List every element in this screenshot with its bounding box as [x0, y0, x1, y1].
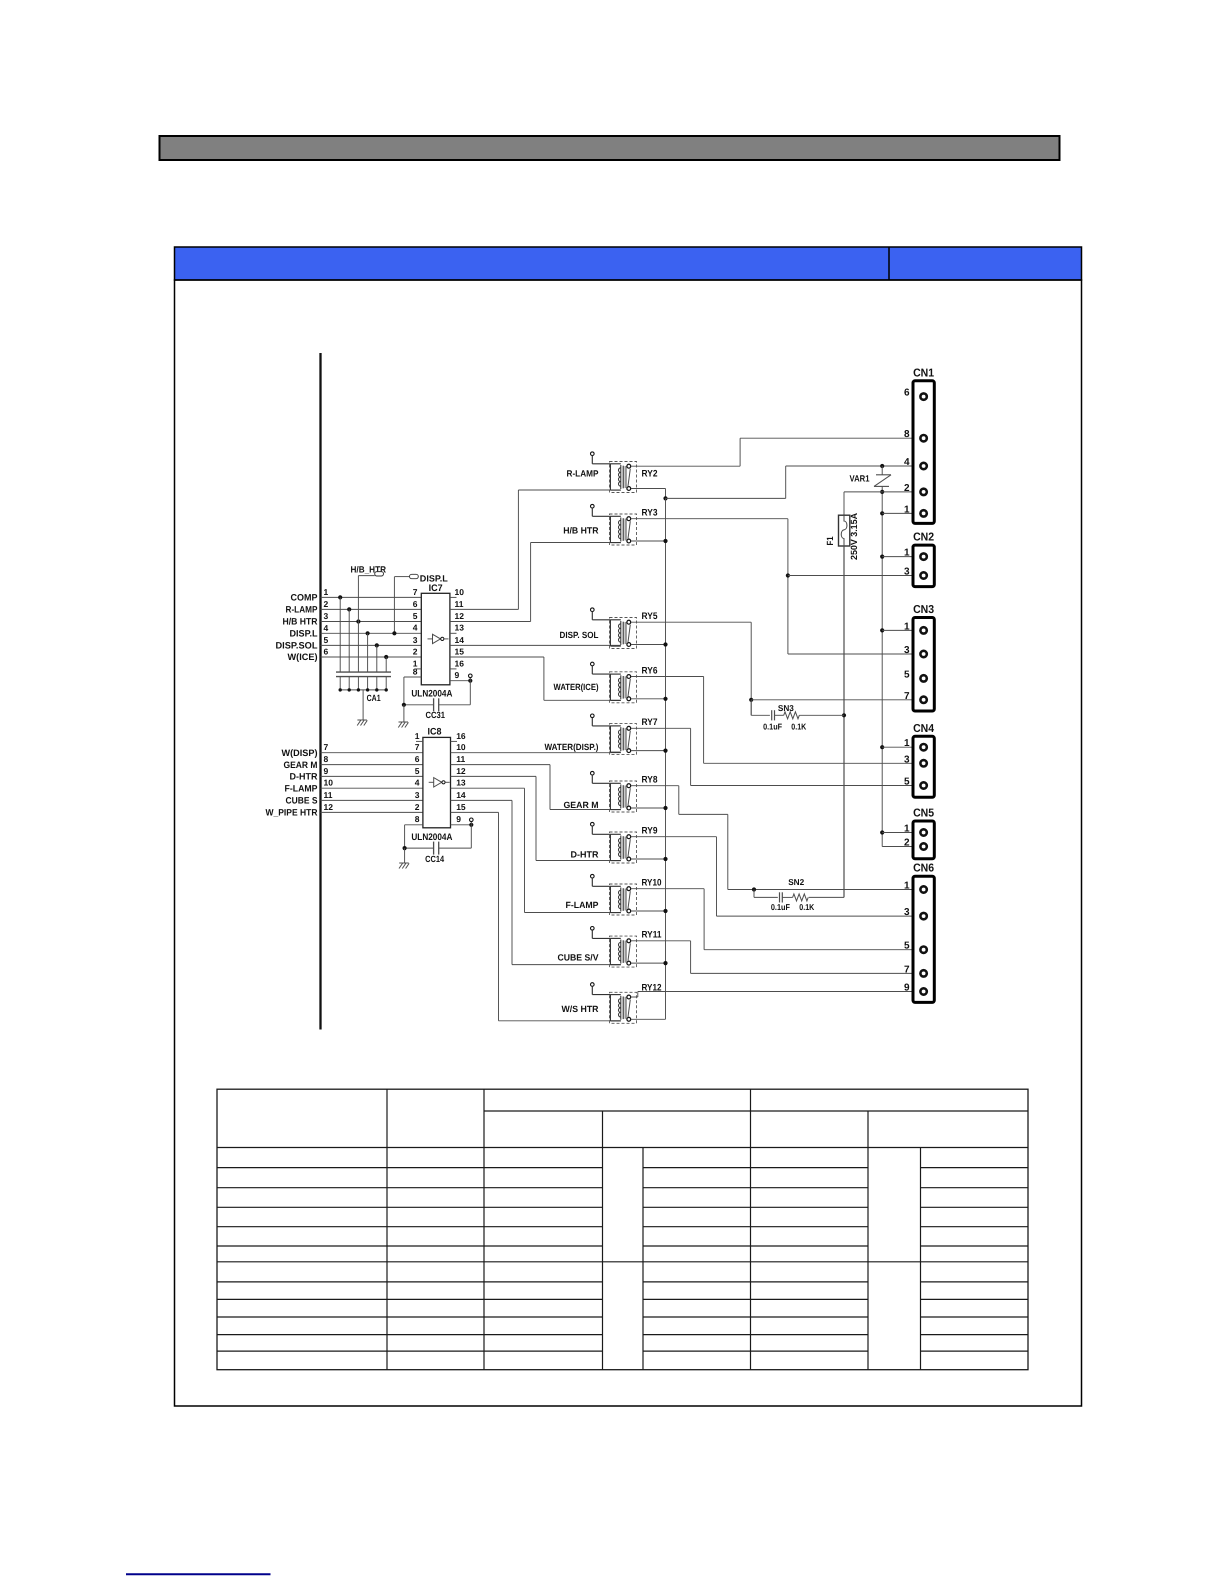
label F1	[825, 537, 835, 546]
wire bus pin 1 to IC7 pin 7	[321, 596, 422, 598]
wire IC8 pin 11 to relay RY8 coil	[451, 765, 621, 810]
svg-text:2: 2	[324, 599, 329, 609]
relay RY12	[591, 983, 637, 1024]
svg-text:W(DISP): W(DISP)	[282, 748, 318, 758]
node label F-LAMP	[285, 783, 318, 793]
svg-text:16: 16	[455, 658, 465, 668]
svg-text:GEAR M: GEAR M	[284, 760, 318, 770]
label RY11	[642, 930, 663, 941]
bus pin number 2	[324, 599, 329, 609]
IC8 pin 16 stub	[451, 740, 458, 742]
svg-text:14: 14	[455, 635, 465, 645]
svg-text:3: 3	[904, 754, 910, 765]
svg-text:W/S HTR: W/S HTR	[562, 1004, 599, 1014]
svg-text:WATER(DISP.): WATER(DISP.)	[545, 742, 599, 752]
op-amp IC8 ULN2004A body	[423, 737, 451, 827]
svg-text:4: 4	[904, 457, 910, 468]
wire IC8 pin 12 to relay RY9 coil	[451, 776, 621, 860]
wire CN1 pin 2 to fuse F1	[844, 492, 913, 515]
svg-text:RY9: RY9	[642, 826, 658, 837]
label RY7	[642, 717, 658, 728]
wire bus pin 9 to IC8 pin 5	[321, 775, 423, 777]
wire bus pin 6 to IC7 pin 2	[321, 656, 422, 658]
op-amp IC7 ULN2004A body	[421, 593, 450, 685]
svg-text:0.1K: 0.1K	[791, 722, 807, 732]
capacitor CC14	[403, 842, 472, 855]
label 0.1K (SN3)	[791, 722, 807, 732]
bus pin number 8	[324, 754, 329, 764]
label RY5	[642, 611, 659, 622]
node label GEAR M	[284, 760, 318, 770]
svg-text:VAR1: VAR1	[850, 474, 870, 484]
wire RY11 contact to CN6 pin 7	[631, 941, 913, 974]
ground (CC14)	[399, 848, 409, 868]
svg-text:5: 5	[413, 611, 418, 621]
bus pin number 5	[324, 635, 329, 645]
svg-text:1: 1	[904, 824, 910, 835]
bus pin number 7	[324, 742, 329, 752]
label D-HTR (relay RY9 load)	[571, 850, 599, 860]
wire RY6 contact to CN4 pin 3	[631, 677, 913, 764]
wire RY7 contact to CN4 pin 5	[631, 728, 913, 785]
label F-LAMP (relay RY10 load)	[566, 900, 599, 910]
svg-text:IC8: IC8	[428, 727, 442, 738]
label RY9	[642, 826, 658, 837]
tag H/B_HTR	[351, 564, 387, 576]
svg-text:RY3: RY3	[642, 508, 658, 519]
bus pin number 3	[324, 611, 329, 621]
node label DISP.SOL	[276, 641, 318, 651]
relay RY9	[591, 822, 637, 863]
svg-text:1: 1	[904, 738, 910, 749]
wire to CN3 pin 1	[882, 629, 913, 631]
capacitor CC31	[402, 698, 471, 711]
snubber SN2	[754, 890, 844, 903]
inverter symbol IC7	[428, 634, 449, 643]
ground (CA1)	[357, 720, 367, 726]
svg-text:RY11: RY11	[642, 930, 663, 941]
svg-text:8: 8	[415, 814, 420, 824]
svg-text:IC7: IC7	[429, 583, 443, 594]
svg-text:10: 10	[324, 778, 334, 788]
svg-text:1: 1	[904, 504, 910, 515]
wire to CN5 pin 2	[882, 846, 912, 848]
svg-text:2: 2	[413, 646, 418, 656]
wire RY12 contact to CN6 pin 9	[631, 992, 913, 998]
svg-text:SN2: SN2	[788, 877, 804, 887]
wire RY5 contact to CN3 pin 7 and SN3	[631, 622, 913, 715]
relay RY5	[591, 608, 637, 649]
svg-text:CN6: CN6	[913, 863, 934, 875]
svg-text:10: 10	[455, 587, 465, 597]
svg-text:250V 3.15A: 250V 3.15A	[849, 513, 859, 560]
IC7 pin 10 stub	[450, 596, 457, 598]
label RY6	[642, 665, 658, 676]
label CN3 and pin numbers	[904, 604, 934, 702]
relay RY11	[591, 927, 637, 968]
IC8 left pin numbers	[415, 731, 420, 824]
svg-text:6: 6	[415, 754, 420, 764]
svg-text:0.1uF: 0.1uF	[771, 902, 790, 912]
inverter symbol IC8	[429, 778, 450, 787]
svg-text:W_PIPE HTR: W_PIPE HTR	[266, 808, 318, 818]
svg-text:7: 7	[904, 964, 910, 975]
bus pin number 10	[324, 778, 334, 788]
svg-text:9: 9	[904, 983, 910, 994]
specification table grid	[217, 1089, 1028, 1370]
svg-text:11: 11	[324, 790, 333, 800]
varistor VAR1	[874, 466, 891, 492]
svg-text:1: 1	[904, 621, 910, 632]
wire IC8 pin 13 to relay RY10 coil	[451, 788, 621, 912]
connector CN4	[913, 736, 934, 797]
svg-text:DISP. SOL: DISP. SOL	[560, 630, 599, 640]
svg-text:COMP: COMP	[291, 593, 318, 603]
svg-text:6: 6	[904, 388, 910, 399]
svg-text:CUBE S/V: CUBE S/V	[558, 953, 599, 963]
svg-text:0.1K: 0.1K	[799, 902, 815, 912]
svg-text:5: 5	[904, 777, 910, 788]
outer document frame	[175, 280, 1082, 1406]
label W/S HTR (relay RY12 load)	[562, 1004, 599, 1014]
svg-text:H/B HTR: H/B HTR	[563, 526, 599, 536]
svg-text:8: 8	[904, 429, 910, 440]
snubber SN3	[751, 700, 844, 721]
IC7 pin 1 stub	[415, 668, 422, 670]
wire RY10 contact to CN6 pin 5	[631, 889, 913, 950]
svg-text:R-LAMP: R-LAMP	[286, 605, 318, 615]
label CN6 and pin numbers	[904, 863, 934, 994]
svg-text:9: 9	[456, 814, 461, 824]
label RY8	[642, 775, 658, 786]
svg-text:3: 3	[324, 611, 329, 621]
label RY12	[642, 982, 662, 993]
wire bus pin 4 to IC7 pin 4	[321, 632, 422, 634]
relay RY8	[591, 771, 637, 812]
bus pin number 1	[324, 587, 329, 597]
wire RY3 contact to CN2 pin 3 and CN3 pin 3	[631, 519, 913, 654]
svg-text:CN1: CN1	[913, 367, 935, 379]
svg-text:3: 3	[904, 567, 910, 578]
svg-text:RY6: RY6	[642, 665, 658, 676]
node label DISP.L	[290, 629, 318, 639]
wire IC7 pin 15 to relay RY6 coil	[450, 657, 621, 700]
svg-text:5: 5	[904, 669, 910, 680]
svg-text:12: 12	[455, 611, 465, 621]
svg-text:2: 2	[415, 802, 420, 812]
label H/B HTR (relay RY3 load)	[563, 526, 599, 536]
wire bus pin 10 to IC8 pin 4	[321, 787, 423, 789]
svg-text:4: 4	[415, 778, 420, 788]
svg-text:13: 13	[456, 778, 466, 788]
svg-text:5: 5	[904, 941, 910, 952]
svg-text:14: 14	[456, 790, 466, 800]
label VAR1	[850, 474, 870, 484]
IC7 pin 13 stub	[450, 632, 457, 634]
label CN5 and pin numbers	[904, 808, 935, 849]
relay RY10	[591, 874, 637, 915]
svg-text:CN2: CN2	[913, 532, 934, 544]
svg-text:4: 4	[324, 623, 329, 633]
IC7 left pin numbers	[413, 587, 418, 677]
label WATER(DISP.) (relay RY7 load)	[545, 742, 599, 752]
wire bus pin 7 to IC8 pin 7	[321, 752, 423, 754]
svg-text:3: 3	[904, 907, 910, 918]
blue section header bar	[175, 247, 1082, 280]
wire IC8 pin 9 terminal	[451, 818, 474, 848]
wire to CN2 pin 1	[882, 556, 913, 558]
wire IC7 pin 9 terminal	[450, 674, 473, 705]
node label D-HTR	[290, 772, 318, 782]
svg-text:16: 16	[456, 731, 466, 741]
fuse F1 250V 3.15A	[839, 515, 850, 546]
svg-text:ULN2004A: ULN2004A	[411, 689, 452, 700]
svg-text:CN3: CN3	[913, 604, 934, 616]
svg-text:CC14: CC14	[425, 854, 444, 864]
svg-text:6: 6	[413, 599, 418, 609]
connector CN1	[913, 381, 934, 524]
relay RY3	[591, 504, 637, 545]
node label CUBE S	[286, 796, 318, 806]
svg-text:6: 6	[324, 647, 329, 657]
label ULN2004A (IC7)	[411, 689, 452, 700]
node label H/B HTR	[283, 617, 318, 627]
label GEAR M (relay RY8 load)	[564, 800, 599, 810]
bus pin number 11	[324, 790, 333, 800]
svg-text:2: 2	[904, 838, 910, 849]
label IC8	[428, 727, 442, 738]
wire to CN1 pin 1	[882, 512, 913, 514]
IC7 pin 16 stub	[450, 668, 457, 670]
junction dots CA1 taps	[338, 595, 388, 659]
wire IC7 pin 11 to relay RY2 coil	[450, 490, 621, 609]
wire RY2 contact to CN1 pin 8	[631, 438, 913, 466]
svg-text:GEAR M: GEAR M	[564, 800, 599, 810]
label WATER(ICE) (relay RY6 load)	[554, 682, 599, 692]
svg-text:RY8: RY8	[642, 775, 658, 786]
label CUBE S/V (relay RY11 load)	[558, 953, 599, 963]
svg-text:7: 7	[413, 587, 418, 597]
bus pin number 12	[324, 802, 334, 812]
bus pin number 6	[324, 647, 329, 657]
svg-text:H/B HTR: H/B HTR	[283, 617, 318, 627]
wire IC7 pin 14 to relay RY5 coil	[450, 644, 621, 646]
wire F1 to snubber rail	[842, 546, 846, 897]
wire bus pin 8 to IC8 pin 6	[321, 764, 423, 766]
svg-text:7: 7	[324, 742, 329, 752]
label RY2	[642, 469, 658, 480]
svg-text:1: 1	[415, 731, 420, 741]
svg-text:12: 12	[324, 802, 334, 812]
label 250V 3.15A	[849, 513, 859, 560]
svg-text:D-HTR: D-HTR	[571, 850, 599, 860]
label DISP. SOL (relay RY5 load)	[560, 630, 599, 640]
wire RY8 contact to CN6 pin 1	[631, 786, 913, 892]
wire H/B_HTR tag to node 3	[357, 576, 359, 622]
svg-text:CN5: CN5	[913, 808, 935, 820]
svg-text:F-LAMP: F-LAMP	[285, 783, 318, 793]
svg-text:W(ICE): W(ICE)	[288, 652, 318, 662]
label 0.1uF (SN2)	[771, 902, 790, 912]
label SN2	[788, 877, 804, 887]
svg-text:0.1uF: 0.1uF	[763, 722, 782, 732]
bus pin number 9	[324, 766, 329, 776]
svg-text:R-LAMP: R-LAMP	[567, 469, 599, 479]
svg-text:2: 2	[904, 483, 910, 494]
label R-LAMP (relay RY2 load)	[567, 469, 599, 479]
wire IC7 pin 8 to CC31	[404, 677, 421, 705]
svg-text:7: 7	[904, 691, 910, 702]
label ULN2004A (IC8)	[411, 832, 452, 843]
svg-text:DISP.L: DISP.L	[420, 573, 449, 583]
relay common rail	[631, 498, 668, 1019]
wire bus pin 12 to IC8 pin 2	[321, 811, 423, 813]
relay RY7	[591, 714, 637, 755]
relay RY2	[591, 452, 637, 493]
wire bus pin 3 to IC7 pin 5	[321, 621, 422, 623]
wire bus pin 2 to IC7 pin 6	[321, 608, 422, 610]
label IC7	[429, 583, 443, 594]
svg-text:F-LAMP: F-LAMP	[566, 900, 599, 910]
label RY10	[642, 878, 662, 889]
svg-text:3: 3	[904, 645, 910, 656]
svg-text:CA1: CA1	[367, 693, 381, 703]
label CA1	[367, 693, 381, 703]
wire RY2 common to CN1 pin 4 (power feed)	[631, 464, 913, 501]
svg-text:4: 4	[413, 623, 418, 633]
node label W(DISP)	[282, 748, 318, 758]
svg-text:CN4: CN4	[913, 723, 935, 735]
label CC31	[426, 710, 446, 720]
label CC14	[425, 854, 444, 864]
svg-text:11: 11	[456, 754, 465, 764]
svg-text:8: 8	[413, 666, 418, 676]
wire IC8 pin 14 to relay RY11 coil	[451, 800, 621, 964]
tag DISP.L	[394, 573, 448, 583]
node label R-LAMP	[286, 605, 318, 615]
svg-text:CUBE S: CUBE S	[286, 796, 318, 806]
wire to CN4 pin 1	[882, 746, 912, 748]
svg-text:12: 12	[456, 766, 466, 776]
svg-text:10: 10	[456, 742, 466, 752]
svg-text:5: 5	[324, 635, 329, 645]
IC8 pin 1 stub	[416, 740, 423, 742]
footer navy rule	[126, 1573, 271, 1575]
svg-text:SN3: SN3	[778, 703, 794, 713]
svg-text:ULN2004A: ULN2004A	[411, 832, 452, 843]
input bus line	[319, 353, 321, 1030]
capacitor array CA1	[336, 597, 391, 720]
label CN1 and pin numbers	[904, 367, 935, 515]
wire IC8 pin 10 to relay RY7 coil	[451, 752, 621, 754]
wire power rail to connectors	[880, 490, 884, 847]
wire DISP.L tag to node 4	[392, 577, 396, 636]
label 0.1uF (SN3)	[763, 722, 782, 732]
page title bar (gray)	[160, 136, 1060, 160]
IC7 right pin numbers	[455, 587, 465, 680]
svg-text:15: 15	[456, 802, 466, 812]
label 0.1K (SN2)	[799, 902, 815, 912]
svg-text:1: 1	[904, 881, 910, 892]
node label W(ICE)	[288, 652, 318, 662]
connector CN2	[913, 545, 934, 587]
wire IC8 pin 15 to relay RY12 coil	[451, 812, 621, 1020]
svg-text:1: 1	[324, 587, 329, 597]
wire IC7 pin 12 to relay RY3 coil	[450, 543, 621, 622]
wire RY9 contact to CN6 pin 3	[631, 837, 913, 916]
svg-text:5: 5	[415, 766, 420, 776]
svg-text:D-HTR: D-HTR	[290, 772, 318, 782]
bus pin number 4	[324, 623, 329, 633]
connector CN5	[913, 821, 934, 859]
svg-text:RY2: RY2	[642, 469, 658, 480]
svg-text:1: 1	[904, 548, 910, 559]
svg-text:RY10: RY10	[642, 878, 662, 889]
wire bus pin 5 to IC7 pin 3	[321, 644, 422, 646]
svg-text:WATER(ICE): WATER(ICE)	[554, 682, 599, 692]
ground (CC31)	[398, 705, 408, 728]
connector CN3	[913, 618, 934, 712]
svg-text:11: 11	[455, 599, 464, 609]
label CN4 and pin numbers	[904, 723, 935, 788]
IC8 right pin numbers	[456, 731, 466, 824]
wire to CN5 pin 1	[882, 832, 912, 834]
svg-text:DISP.SOL: DISP.SOL	[276, 641, 318, 651]
svg-text:3: 3	[413, 635, 418, 645]
svg-text:CC31: CC31	[426, 710, 446, 720]
label CN2 and pin numbers	[904, 532, 934, 578]
svg-text:3: 3	[415, 790, 420, 800]
wire IC8 pin 8 to CC14	[405, 825, 423, 848]
connector CN6	[913, 876, 934, 1002]
label SN3	[778, 703, 794, 713]
node label COMP	[291, 593, 318, 603]
svg-text:F1: F1	[825, 537, 835, 546]
node label W_PIPE HTR	[266, 808, 318, 818]
wire bus pin 11 to IC8 pin 3	[321, 799, 423, 801]
svg-text:9: 9	[324, 766, 329, 776]
svg-text:13: 13	[455, 623, 465, 633]
svg-text:RY5: RY5	[642, 611, 659, 622]
svg-text:8: 8	[324, 754, 329, 764]
svg-text:7: 7	[415, 742, 420, 752]
svg-text:RY7: RY7	[642, 717, 658, 728]
relay RY6	[591, 662, 637, 703]
label RY3	[642, 508, 658, 519]
svg-text:15: 15	[455, 646, 465, 656]
svg-text:9: 9	[455, 670, 460, 680]
svg-text:DISP.L: DISP.L	[290, 629, 318, 639]
